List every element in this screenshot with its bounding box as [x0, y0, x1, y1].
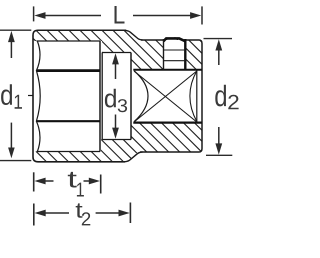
dimension L extension left — [33, 6, 35, 21]
bore floor — [102, 139, 131, 141]
hex opening ceiling — [37, 40, 101, 42]
hex mouth chamfer curve — [36, 42, 40, 152]
dimension d2 line top with up arrow — [215, 39, 222, 65]
square hole diagonal 1 — [134, 71, 197, 122]
dimension t1 right arrow — [84, 178, 101, 185]
hex opening floor — [37, 151, 101, 153]
label d3 — [105, 89, 127, 112]
hex upper flat line — [37, 69, 101, 72]
dimension t1 left arrow — [34, 178, 53, 185]
bore end wall — [130, 53, 132, 140]
dimension L line right with arrow — [133, 12, 201, 19]
square hole diagonal 2 — [134, 71, 197, 122]
dimension t2 right arrow — [96, 210, 130, 217]
square hole left arc — [134, 71, 148, 122]
dimension d2 extension top — [204, 38, 233, 40]
socket outer profile — [33, 30, 202, 162]
label L — [115, 6, 125, 23]
bore left wall — [101, 53, 103, 140]
dimension t1 tick right — [100, 175, 102, 194]
dimension t2 tick right — [129, 203, 131, 224]
dimension d2 extension bottom — [206, 154, 232, 156]
square drive hole top wall — [133, 69, 202, 71]
detent hole left side — [163, 39, 165, 70]
square hole right arc — [190, 71, 197, 122]
dimension d1 extension bottom — [0, 160, 31, 162]
label t1 — [68, 172, 84, 197]
detent plug dome — [163, 38, 185, 41]
dimension d2 line bottom with down arrow — [215, 127, 222, 155]
dimension L line left with arrow — [34, 12, 101, 19]
square drive hole bottom wall — [133, 121, 202, 123]
dimension L extension right — [201, 6, 203, 24]
detent hole divider 2 — [164, 60, 186, 62]
label d1 — [1, 84, 22, 108]
dimension t1 tick left — [33, 172, 35, 191]
dimension d1 line top with up arrow — [8, 31, 15, 58]
dimension t2 tick left — [33, 204, 35, 226]
square hole end wall — [196, 71, 198, 123]
centre tick at mouth — [28, 95, 33, 97]
dimension d1 extension top — [0, 29, 31, 31]
hex right wall — [99, 41, 101, 152]
detent hole right side — [184, 39, 186, 70]
hex lower flat line — [37, 120, 101, 122]
label d2 — [215, 85, 238, 110]
dimension d3 line bottom with down arrow — [112, 115, 119, 139]
dimension t2 left arrow — [35, 210, 70, 217]
dimension d3 line top with up arrow — [112, 53, 119, 79]
dimension d1 line bottom with down arrow — [8, 123, 15, 159]
bore ceiling — [102, 52, 131, 54]
label t2 — [76, 203, 91, 225]
detent hole divider 1 — [164, 49, 186, 51]
